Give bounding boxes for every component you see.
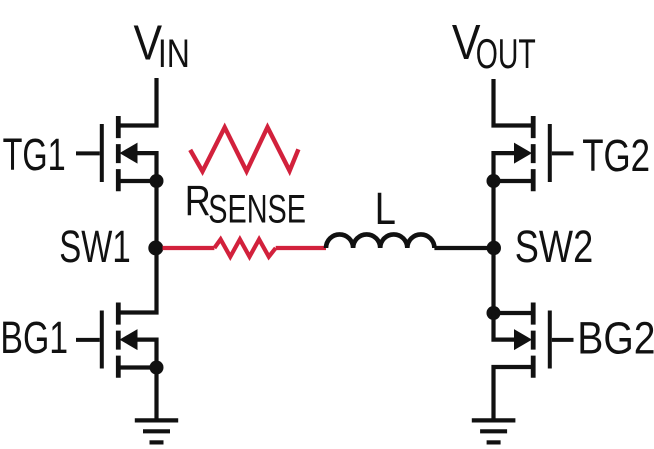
svg-text:SW2: SW2 (515, 221, 593, 272)
wire L to SW2 (434, 246, 493, 250)
wire BG1 source to ground (154, 368, 158, 420)
ground left (135, 420, 178, 442)
svg-text:BG2: BG2 (577, 312, 654, 363)
resistor RSENSE (214, 239, 275, 256)
svg-text:TG2: TG2 (582, 130, 650, 181)
inductor L (326, 234, 434, 248)
wire TG2 source to SW2 (491, 181, 495, 248)
svg-text:IN: IN (158, 32, 190, 76)
svg-text:TG1: TG1 (3, 129, 66, 180)
svg-text:SW1: SW1 (59, 221, 130, 272)
svg-text:BG1: BG1 (0, 312, 68, 363)
node SW2 (487, 241, 501, 255)
transistor TG2 (487, 116, 574, 191)
node VIN label (134, 16, 190, 75)
svg-text:SENSE: SENSE (208, 188, 306, 232)
transistor TG1 (76, 116, 164, 191)
wire TG1 source to SW1 (154, 181, 158, 248)
transistor BG2 (487, 303, 574, 420)
wire SW2 to BG2 drain (491, 248, 495, 313)
transistor BG1 (76, 303, 164, 378)
svg-text:OUT: OUT (476, 30, 536, 77)
wire VOUT to TG2 drain (494, 79, 534, 126)
current ripple icon (red triangle wave) (190, 127, 298, 171)
wire SW1 to RSENSE (red) (163, 246, 215, 250)
ground right (472, 420, 516, 442)
svg-text:R: R (185, 178, 211, 225)
node VOUT label (452, 16, 536, 77)
resistor RSENSE label (185, 178, 306, 231)
wire SW1 to BG1 drain (118, 248, 156, 313)
node SW1 (148, 241, 163, 256)
wire RSENSE to L (red) (276, 246, 326, 250)
svg-text:L: L (375, 183, 396, 234)
wire VIN to TG1 drain (118, 78, 156, 126)
